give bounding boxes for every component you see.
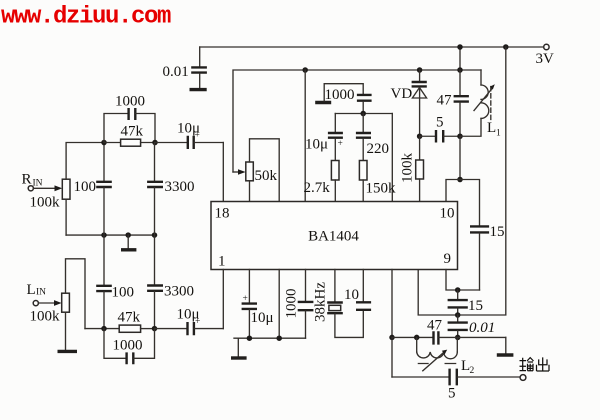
junction ground bus / 100 cap column	[101, 232, 107, 238]
svg-text:47k: 47k	[118, 310, 141, 326]
svg-text:1000: 1000	[284, 289, 300, 319]
wire: 50k bottom lead to IC pin 17	[249, 181, 251, 202]
svg-text:5: 5	[448, 386, 456, 402]
svg-text:47: 47	[437, 93, 453, 109]
resistor 100k (VD bias)	[400, 136, 424, 201]
svg-text:0.01: 0.01	[163, 64, 189, 80]
junction ground bus / 10u	[247, 335, 253, 341]
svg-text:0.01: 0.01	[469, 320, 495, 336]
wire: pin 15 riser	[304, 70, 306, 202]
wire: IC pin 10 riser	[446, 180, 460, 202]
svg-text:10: 10	[344, 287, 359, 303]
svg-text:+: +	[195, 131, 200, 141]
capacitor 10u (R channel coupling)	[155, 121, 223, 150]
svg-text:100k: 100k	[30, 309, 61, 325]
ground (lower bus)	[231, 338, 247, 358]
junction VD / 5 cap wire	[417, 134, 423, 140]
potentiometer 50k	[246, 162, 278, 184]
svg-text:+: +	[243, 294, 248, 304]
svg-text:100k: 100k	[400, 153, 416, 184]
op-amp/IC U1 BA1404	[211, 202, 458, 270]
ground (L pot)	[58, 350, 78, 353]
wire: L signal bus	[85, 328, 119, 330]
wire: right-side 3V riser down to IC pin 8 feed	[418, 47, 506, 315]
svg-text:2: 2	[470, 366, 475, 376]
wire: lower ground bus (pins 2-4)	[234, 337, 306, 339]
wire: second rail (VD / tank / 50k wiper feed)	[233, 70, 481, 172]
svg-text:15: 15	[490, 224, 505, 240]
svg-text:10μ: 10μ	[251, 310, 274, 326]
wire: pin 3 to ground bus	[278, 270, 280, 339]
ground (below 0.01)	[190, 88, 207, 91]
svg-text:100k: 100k	[30, 195, 61, 211]
svg-text:9: 9	[444, 251, 452, 267]
svg-text:1000: 1000	[113, 338, 143, 354]
terminal: R input	[28, 186, 33, 191]
resistor 2.7k	[304, 139, 340, 202]
junction R signal wire / 100 cap	[101, 140, 107, 146]
capacitor 220 (above pin 13)	[356, 114, 389, 158]
ground (near output)	[497, 337, 514, 355]
svg-text:L: L	[487, 120, 496, 136]
wire: L input arrow into pot wiper	[39, 300, 62, 306]
svg-text:100: 100	[112, 285, 135, 301]
wire: pin 9 to doubler node	[446, 270, 480, 291]
capacitor 5 (antenna coupling)	[392, 369, 520, 402]
terminal: RF output	[520, 375, 526, 381]
wire: pin 12 riser	[391, 114, 393, 202]
svg-text:BA1404: BA1404	[308, 229, 359, 245]
wire: upper ground bus	[66, 234, 154, 236]
junction second rail / VD	[417, 67, 423, 73]
svg-text:1000: 1000	[325, 87, 355, 103]
varactor diode VD	[391, 70, 427, 136]
junction supply node	[455, 312, 461, 318]
junction on 3V rail at tie	[457, 44, 463, 50]
svg-text:IN: IN	[33, 179, 43, 189]
svg-text:10: 10	[440, 206, 455, 222]
svg-text:1: 1	[218, 254, 226, 270]
terminal: 3V supply	[544, 44, 549, 49]
terminal: L input	[33, 301, 38, 306]
svg-text:47: 47	[427, 318, 443, 334]
junction RF bus / L2 left	[414, 335, 420, 341]
wire: L pot bottom lead to ground	[65, 312, 67, 349]
resistor 47k (L channel)	[118, 310, 155, 333]
label R_IN	[22, 172, 43, 189]
svg-text:5: 5	[436, 115, 444, 131]
svg-text:www.dziuu.com: www.dziuu.com	[1, 4, 171, 31]
svg-text:15: 15	[468, 298, 483, 314]
svg-text:50k: 50k	[255, 168, 278, 184]
svg-text:1000: 1000	[115, 94, 145, 110]
wire: to IC pin 1	[222, 270, 224, 329]
capacitor 47 (L2 tank)	[392, 318, 506, 345]
wire: 50k wiper arrow	[233, 169, 246, 175]
inductor L1 (adjustable)	[460, 70, 501, 139]
capacitor 10 (pin 6)	[344, 270, 371, 310]
junction RF bus / 0.01	[455, 335, 461, 341]
label output (Chinese 输出)	[520, 357, 550, 371]
wire: tie between 3V rail and second rail	[459, 47, 461, 70]
capacitor 3300 (R channel)	[147, 143, 194, 236]
wire: tank node down to pin 10 node	[459, 136, 461, 179]
junction L bus / 100 cap	[101, 326, 107, 332]
capacitor 1000 (parallel with L 47k)	[104, 329, 155, 365]
junction second rail / pin15	[302, 67, 308, 73]
svg-text:2.7k: 2.7k	[304, 180, 331, 196]
svg-text:IN: IN	[36, 288, 46, 298]
wire: to IC pin 18	[222, 143, 224, 202]
potentiometer 100k (L channel)	[30, 293, 70, 324]
resistor 47k (R channel)	[104, 123, 155, 146]
svg-text:3V: 3V	[536, 51, 555, 67]
capacitor 10u (above pin 14)	[305, 114, 343, 153]
svg-text:L: L	[27, 282, 36, 298]
capacitor 15 (pin 9 to supply node)	[448, 290, 483, 315]
svg-text:18: 18	[215, 206, 230, 222]
wire: 50k top lead to IC pin 16	[250, 139, 280, 202]
junction R signal wire / 3300 cap	[152, 140, 158, 146]
wire: pin 7 down to RF bus	[391, 270, 393, 338]
inductor L2 (adjustable)	[417, 337, 475, 376]
resistor 150k	[359, 139, 396, 202]
capacitor 10u (pin 2 decoupling)	[242, 270, 274, 339]
capacitor 47 (tank)	[437, 70, 469, 136]
junction pin 10 node	[457, 177, 463, 183]
wire: pin 7 node down to output line	[391, 337, 393, 377]
junction ground bus / ground stub	[125, 232, 131, 238]
capacitor 1000 (pin 4)	[284, 270, 314, 339]
ground (1000 cap, above IC)	[315, 101, 331, 104]
wire: node bus above pins 12-14	[335, 113, 392, 115]
potentiometer 100k (R channel)	[30, 179, 71, 210]
wire: L pot top lead jog down to L bus	[66, 259, 86, 329]
svg-text:150k: 150k	[366, 181, 397, 197]
junction second rail / 47 cap	[457, 67, 463, 73]
svg-text:3300: 3300	[165, 179, 195, 195]
capacitor 10u (L channel coupling)	[155, 307, 224, 336]
svg-text:1: 1	[496, 129, 501, 139]
wire: 3V supply rail (top)	[200, 46, 544, 48]
svg-text:VD: VD	[391, 86, 413, 102]
capacitor 5 (tank coupling)	[420, 115, 460, 143]
capacitor 100 (R channel)	[74, 143, 112, 236]
svg-text:47k: 47k	[121, 123, 144, 139]
svg-text:+: +	[338, 139, 343, 149]
capacitor 100 (L channel)	[96, 235, 134, 329]
wire: R pot top lead to signal wire	[66, 143, 104, 180]
capacitor 1000 (pilot filter, above IC)	[324, 84, 371, 114]
junction on 3V rail at right riser	[503, 44, 509, 50]
capacitor 1000 (parallel with R 47k)	[104, 94, 155, 143]
svg-text:+: +	[195, 317, 200, 327]
crystal X1 38kHz (pin 5)	[313, 270, 364, 338]
wire: R pot bottom lead to ground bus	[65, 199, 67, 235]
capacitor C 0.01 (supply bypass)	[163, 47, 207, 88]
svg-text:3300: 3300	[164, 284, 194, 300]
junction pin 9 node	[455, 287, 461, 293]
junction pin 7 / RF bus	[389, 335, 395, 341]
svg-text:10μ: 10μ	[305, 137, 328, 153]
capacitor 3300 (L channel)	[147, 235, 194, 329]
svg-text:220: 220	[367, 141, 390, 157]
wire: R input arrow into pot wiper	[34, 185, 63, 191]
svg-text:38kHz: 38kHz	[313, 282, 329, 322]
ground (mid-left bus)	[121, 235, 136, 250]
junction node bus / 1000 cap / 220 cap	[360, 111, 366, 117]
capacitor 15 (pin10-pin9 feedback)	[460, 180, 505, 291]
junction ground bus / pin 3	[276, 335, 282, 341]
capacitor 0.01 (output coupling)	[448, 315, 496, 337]
svg-text:100: 100	[74, 179, 97, 195]
label L_IN	[27, 282, 47, 298]
junction ground bus / 3300 cap column	[152, 232, 158, 238]
junction L bus / 3300 cap	[152, 326, 158, 332]
junction tank bottom	[457, 134, 463, 140]
